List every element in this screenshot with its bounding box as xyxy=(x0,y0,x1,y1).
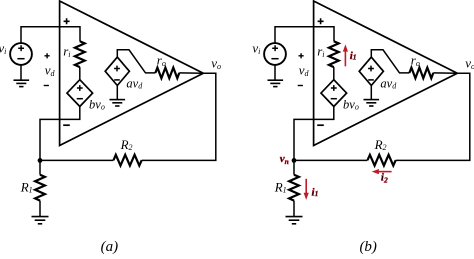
op-amp triangle (b) xyxy=(314,1,458,146)
ground below R1 (b) xyxy=(286,216,303,218)
voltage source vi (a) xyxy=(10,43,32,65)
wire: r_i bottom to bvo source (a) xyxy=(79,67,81,80)
ground below source vi (a) xyxy=(14,79,30,81)
resistor R2 (b) xyxy=(368,155,396,166)
resistor r_i (b) xyxy=(329,41,339,67)
avd "+" polarity mark (a) xyxy=(114,66,120,72)
wire: bvo bottom, left to inverting node, down to feedback junction (b) xyxy=(294,107,334,161)
wire: output vo down to feedback (a) xyxy=(142,73,216,160)
wire: source vi bottom to ground (b) xyxy=(274,65,276,80)
avd "&#8722;" polarity mark (a) xyxy=(114,79,120,81)
op-amp noninverting input "+" label (b) xyxy=(318,18,324,24)
wire: source vi top to r_i top (a) xyxy=(21,27,80,44)
op-amp inverting input "&#8722;" label (a) xyxy=(63,124,70,126)
vd "+" mark (b) xyxy=(299,53,304,58)
junction node dot (b) xyxy=(292,158,297,163)
wire: output vo down to feedback (b) xyxy=(396,73,470,160)
ground below source vi (b) xyxy=(268,79,284,81)
wire: source vi top to r_i top (b) xyxy=(275,27,334,44)
resistor r_o (b) xyxy=(409,68,433,79)
ground below avd (b) xyxy=(364,99,380,101)
bvo "+" polarity mark (a) xyxy=(77,85,83,91)
resistor r_i (a) xyxy=(75,41,85,67)
svg-text:i1: i1 xyxy=(350,50,357,62)
wire: avd bottom to ground (a) xyxy=(116,86,118,100)
source vi "+" polarity mark (b) xyxy=(272,45,278,51)
resistor r_o (a) xyxy=(155,68,179,79)
wire: R1 bottom to ground (a) xyxy=(39,201,41,217)
svg-text:i1: i1 xyxy=(312,186,319,198)
dependent source bvo (diamond) (b) xyxy=(321,80,347,107)
source vi "&#8722;" polarity mark (b) xyxy=(271,58,278,60)
dependent source avd (diamond) (b) xyxy=(359,57,383,85)
wire: r_o to output apex (b) xyxy=(433,72,457,74)
op-amp noninverting input "+" label (a) xyxy=(64,18,70,24)
vd "+" mark (a) xyxy=(45,53,50,58)
ground below avd (a) xyxy=(110,99,126,101)
resistor R2 (a) xyxy=(114,155,142,166)
svg-text:(a): (a) xyxy=(101,239,119,254)
svg-text:(b): (b) xyxy=(359,239,377,254)
wire: bvo bottom, left to inverting node, down to feedback junction (a) xyxy=(40,107,80,161)
wire: avd top to r_o (a) xyxy=(117,50,155,73)
current arrow i1 (up, beside r_i) (b) xyxy=(344,50,346,66)
junction node dot (a) xyxy=(38,158,43,163)
current arrow i1 (down, beside R1) (b) xyxy=(305,179,307,194)
wire: r_o to output apex (a) xyxy=(179,72,203,74)
wire: R1 bottom to ground (b) xyxy=(293,201,295,217)
wire: junction to R2 (b) xyxy=(294,159,368,161)
source vi "+" polarity mark (a) xyxy=(18,45,24,51)
dependent source avd (diamond) (a) xyxy=(105,57,129,85)
avd "&#8722;" polarity mark (b) xyxy=(368,79,374,81)
bvo "&#8722;" polarity mark (b) xyxy=(331,98,337,100)
bvo "+" polarity mark (b) xyxy=(331,85,337,91)
wire: r_i bottom to bvo source (b) xyxy=(333,67,335,80)
op-amp inverting input "&#8722;" label (b) xyxy=(317,124,324,126)
source vi "&#8722;" polarity mark (a) xyxy=(17,58,24,60)
resistor R1 (a) xyxy=(35,175,45,201)
op-amp triangle (a) xyxy=(60,1,204,146)
current arrow i2 (left, under R2) (b) xyxy=(377,171,391,173)
resistor R1 (b) xyxy=(289,175,299,201)
wire: junction down to R1 (a) xyxy=(39,160,41,174)
ground below R1 (a) xyxy=(32,216,49,218)
wire: junction to R2 (a) xyxy=(40,159,114,161)
wire: avd top to r_o (b) xyxy=(371,50,409,73)
avd "+" polarity mark (b) xyxy=(368,66,374,72)
bvo "&#8722;" polarity mark (a) xyxy=(77,98,83,100)
vd "&#8722;" mark (b) xyxy=(298,85,303,87)
wire: source vi bottom to ground (a) xyxy=(20,65,22,80)
wire: junction down to R1 (b) xyxy=(293,160,295,174)
dependent source bvo (diamond) (a) xyxy=(67,80,93,107)
vd "&#8722;" mark (a) xyxy=(44,85,49,87)
wire: avd bottom to ground (b) xyxy=(370,86,372,100)
voltage source vi (b) xyxy=(264,43,286,65)
